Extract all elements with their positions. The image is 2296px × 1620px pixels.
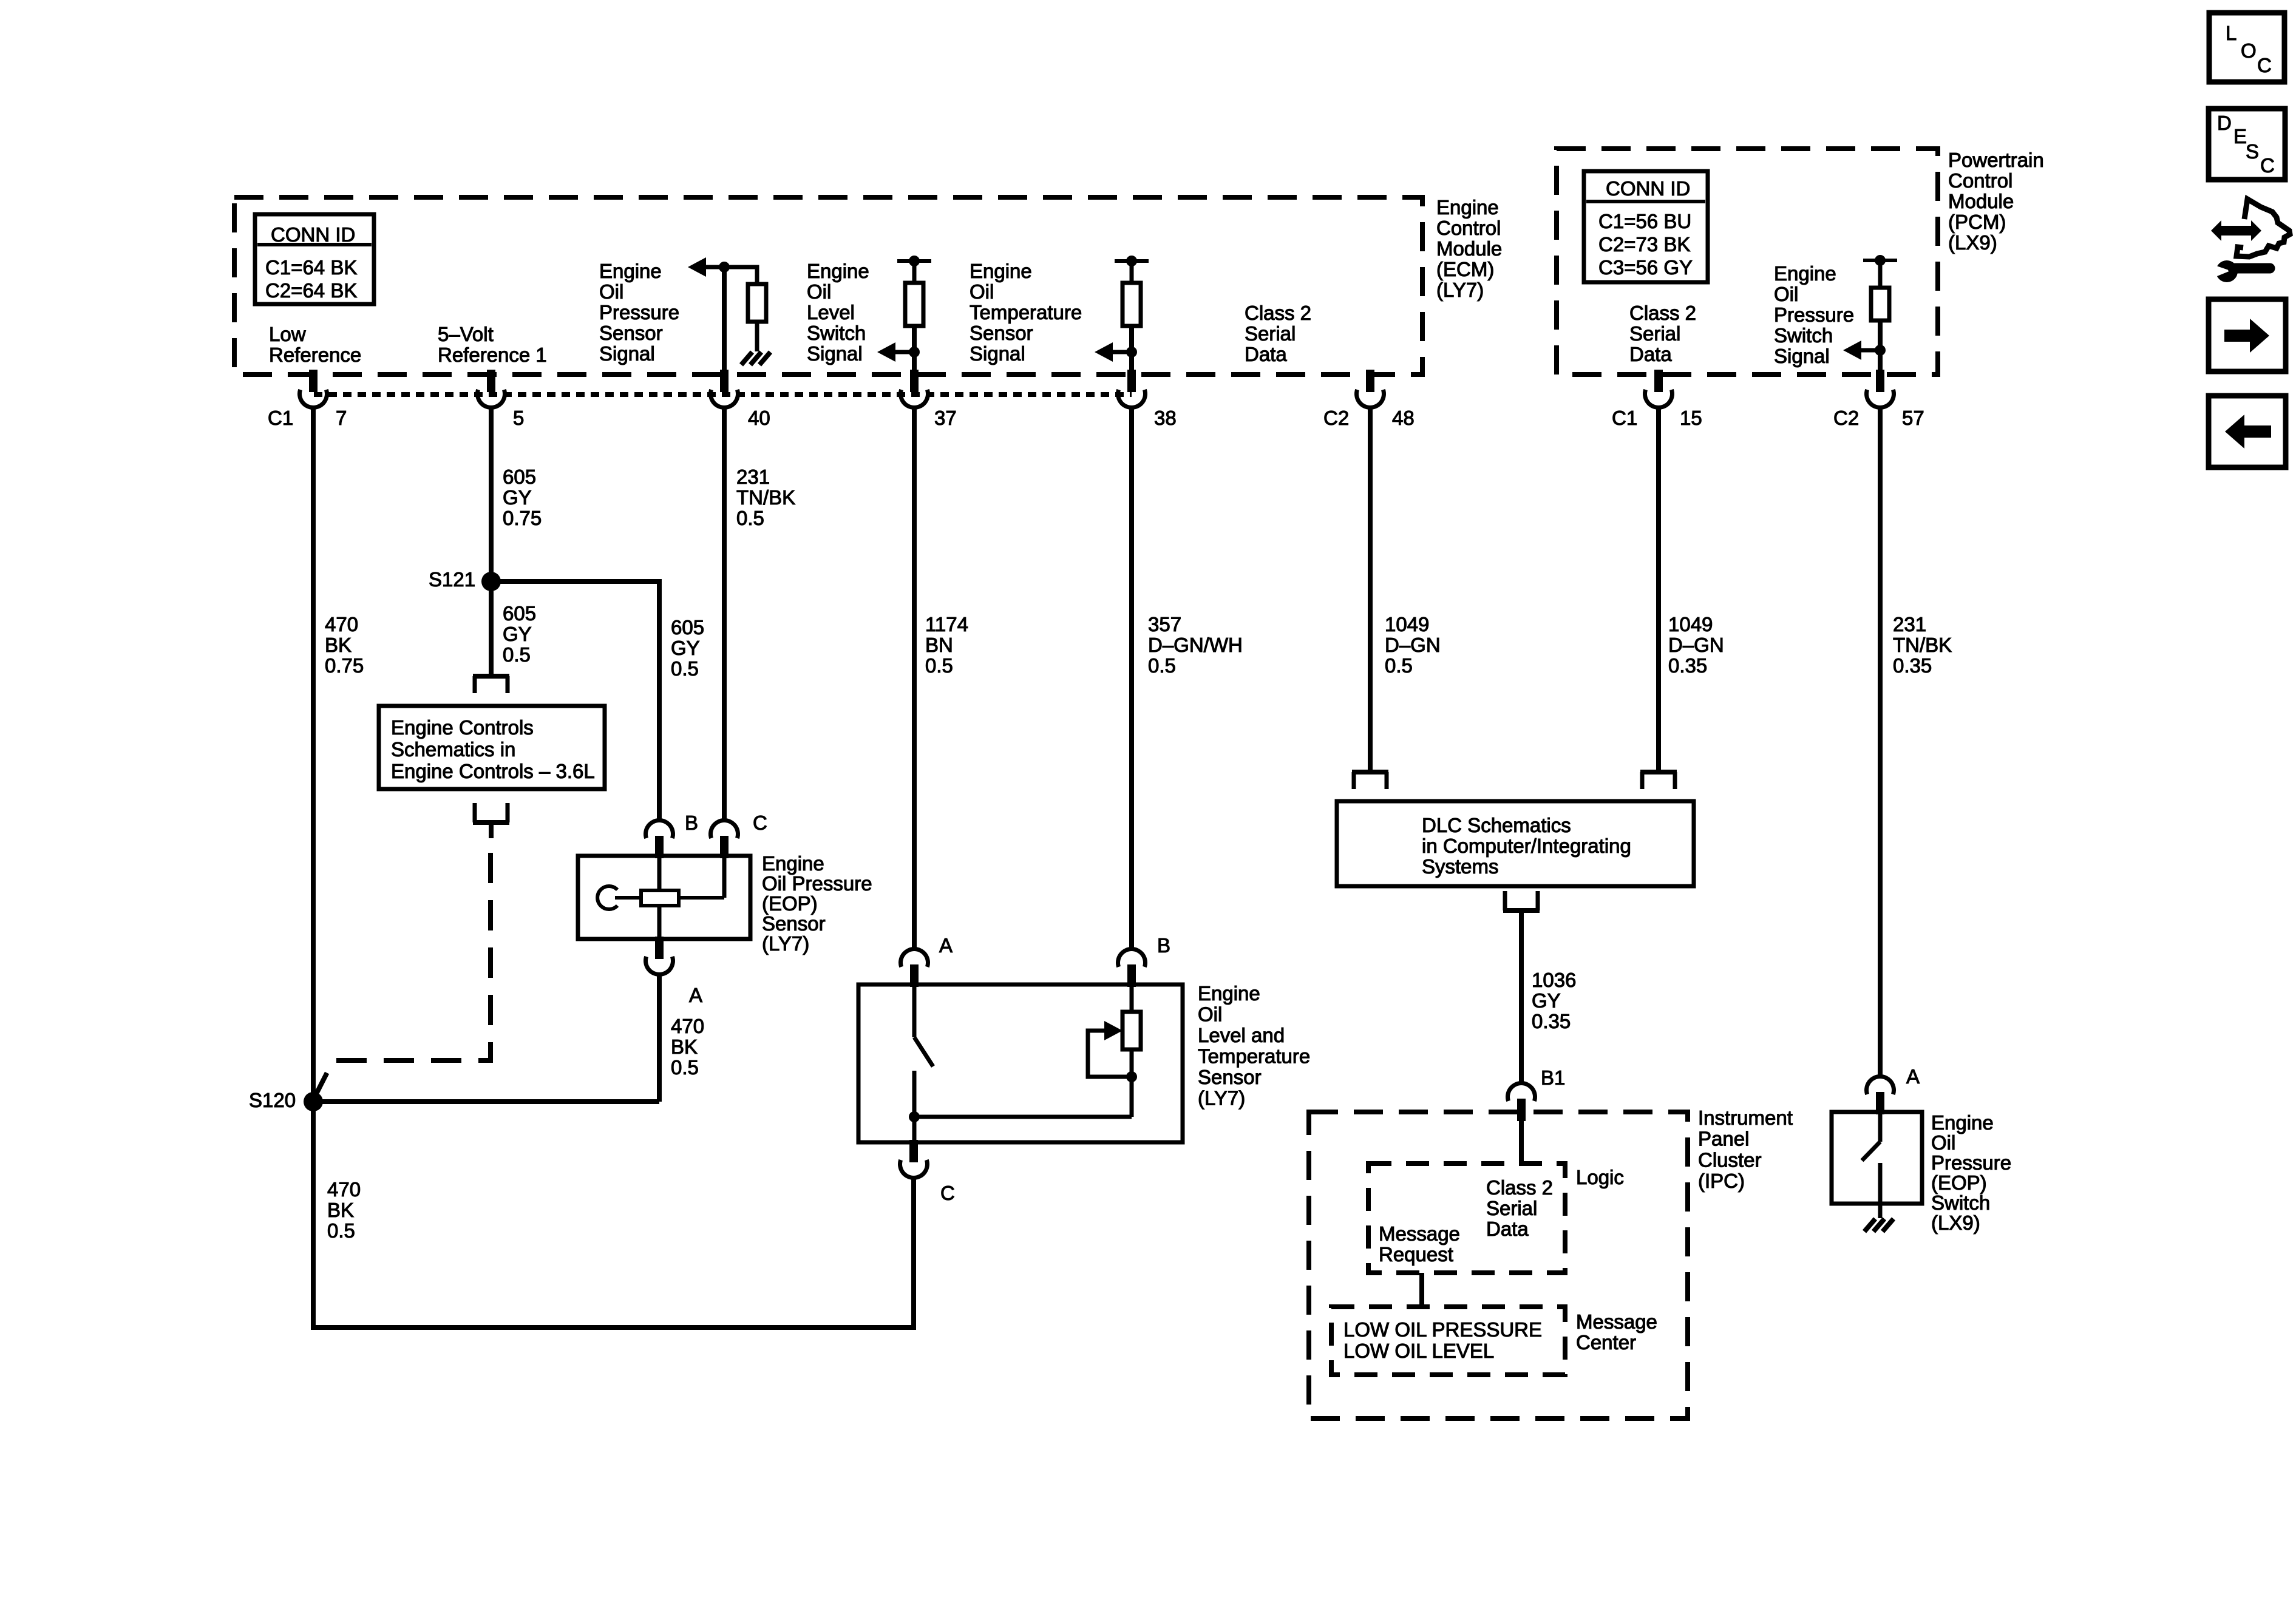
svg-text:Powertrain: Powertrain — [1948, 149, 2044, 171]
svg-text:Oil: Oil — [1931, 1131, 1955, 1154]
svg-text:37: 37 — [934, 407, 957, 429]
svg-text:Level: Level — [807, 301, 855, 324]
svg-text:CONN ID: CONN ID — [1606, 177, 1690, 200]
svg-text:CONN ID: CONN ID — [271, 223, 355, 246]
svg-text:Temperature: Temperature — [1198, 1045, 1310, 1068]
svg-text:(EOP): (EOP) — [762, 892, 818, 915]
svg-text:(IPC): (IPC) — [1698, 1170, 1745, 1192]
svg-text:Data: Data — [1245, 343, 1287, 365]
svg-text:Pressure: Pressure — [599, 301, 679, 324]
svg-text:Control: Control — [1948, 169, 2012, 192]
svg-text:357: 357 — [1148, 613, 1181, 635]
svg-text:Message: Message — [1576, 1310, 1657, 1333]
svg-text:470: 470 — [671, 1015, 704, 1037]
svg-text:D: D — [2217, 112, 2232, 134]
svg-text:1036: 1036 — [1532, 969, 1576, 991]
svg-text:Oil: Oil — [1198, 1003, 1222, 1026]
svg-text:Module: Module — [1948, 190, 2014, 212]
svg-text:BK: BK — [671, 1035, 698, 1058]
svg-text:Oil: Oil — [970, 280, 994, 303]
svg-text:605: 605 — [503, 602, 536, 625]
svg-text:C1=56 BU: C1=56 BU — [1598, 210, 1691, 232]
svg-text:5: 5 — [513, 407, 524, 429]
svg-text:1049: 1049 — [1385, 613, 1429, 635]
svg-text:38: 38 — [1154, 407, 1177, 429]
svg-text:GY: GY — [503, 486, 532, 509]
svg-text:TN/BK: TN/BK — [1893, 634, 1952, 656]
svg-text:DLC Schematics: DLC Schematics — [1422, 814, 1571, 836]
svg-text:Control: Control — [1436, 217, 1501, 239]
svg-text:C1=64 BK: C1=64 BK — [265, 256, 357, 279]
svg-text:S120: S120 — [249, 1089, 296, 1111]
svg-text:BN: BN — [925, 634, 953, 656]
svg-text:48: 48 — [1392, 407, 1415, 429]
svg-text:0.35: 0.35 — [1532, 1010, 1571, 1032]
svg-text:Signal: Signal — [807, 342, 863, 365]
svg-text:B1: B1 — [1541, 1066, 1565, 1089]
svg-text:(LX9): (LX9) — [1948, 231, 1997, 254]
svg-text:Signal: Signal — [599, 342, 655, 365]
svg-text:Sensor: Sensor — [762, 912, 826, 935]
svg-text:(LX9): (LX9) — [1931, 1212, 1980, 1234]
svg-text:C1: C1 — [268, 407, 293, 429]
svg-text:Logic: Logic — [1576, 1166, 1624, 1188]
svg-text:15: 15 — [1680, 407, 1702, 429]
svg-text:1049: 1049 — [1668, 613, 1713, 635]
svg-text:L: L — [2226, 22, 2237, 44]
svg-text:(LY7): (LY7) — [1198, 1087, 1245, 1110]
svg-text:231: 231 — [736, 466, 770, 488]
svg-text:Low: Low — [269, 323, 306, 345]
svg-text:Engine: Engine — [1931, 1111, 1994, 1134]
svg-text:BK: BK — [325, 634, 352, 656]
svg-text:Oil: Oil — [807, 280, 831, 303]
svg-text:GY: GY — [671, 637, 700, 659]
svg-text:C1: C1 — [1612, 407, 1637, 429]
svg-text:TN/BK: TN/BK — [736, 486, 795, 509]
svg-text:A: A — [939, 934, 953, 957]
svg-text:0.5: 0.5 — [503, 643, 531, 666]
svg-text:Message: Message — [1379, 1222, 1460, 1245]
svg-text:LOW OIL LEVEL: LOW OIL LEVEL — [1343, 1340, 1494, 1362]
svg-text:7: 7 — [336, 407, 347, 429]
svg-text:Engine: Engine — [1198, 982, 1260, 1005]
svg-text:Data: Data — [1486, 1218, 1529, 1240]
svg-text:40: 40 — [748, 407, 770, 429]
svg-text:Signal: Signal — [970, 342, 1025, 365]
svg-text:231: 231 — [1893, 613, 1926, 635]
svg-text:470: 470 — [327, 1178, 361, 1201]
svg-text:S: S — [2246, 140, 2259, 163]
svg-text:Systems: Systems — [1422, 855, 1499, 878]
svg-text:Switch: Switch — [807, 322, 866, 344]
svg-text:D–GN/WH: D–GN/WH — [1148, 634, 1243, 656]
svg-text:Switch: Switch — [1774, 324, 1833, 347]
svg-text:Center: Center — [1576, 1331, 1636, 1354]
svg-text:B: B — [1157, 934, 1170, 957]
svg-text:Engine: Engine — [599, 260, 662, 282]
svg-text:S121: S121 — [429, 568, 475, 591]
svg-text:(LY7): (LY7) — [762, 932, 809, 955]
svg-text:C2: C2 — [1833, 407, 1859, 429]
svg-text:Oil: Oil — [1774, 283, 1798, 305]
svg-text:0.5: 0.5 — [671, 1056, 699, 1079]
svg-text:0.5: 0.5 — [1148, 654, 1176, 677]
svg-text:A: A — [1906, 1065, 1920, 1088]
svg-text:Engine Controls: Engine Controls — [391, 716, 534, 739]
svg-text:Switch: Switch — [1931, 1191, 1990, 1214]
svg-text:57: 57 — [1902, 407, 1924, 429]
svg-text:Serial: Serial — [1245, 322, 1296, 345]
svg-text:Level and: Level and — [1198, 1024, 1285, 1046]
svg-text:Instrument: Instrument — [1698, 1107, 1793, 1129]
svg-text:Oil Pressure: Oil Pressure — [762, 872, 872, 895]
svg-text:LOW OIL PRESSURE: LOW OIL PRESSURE — [1343, 1318, 1542, 1341]
svg-text:605: 605 — [503, 466, 536, 488]
svg-text:5–Volt: 5–Volt — [438, 323, 494, 345]
svg-text:Pressure: Pressure — [1774, 303, 1854, 326]
svg-text:Temperature: Temperature — [970, 301, 1082, 324]
svg-text:D–GN: D–GN — [1385, 634, 1441, 656]
svg-text:(EOP): (EOP) — [1931, 1171, 1987, 1194]
svg-text:(ECM): (ECM) — [1436, 258, 1494, 280]
svg-text:D–GN: D–GN — [1668, 634, 1724, 656]
svg-text:C: C — [2257, 54, 2272, 76]
svg-text:Data: Data — [1629, 343, 1672, 365]
svg-text:470: 470 — [325, 613, 358, 635]
svg-text:Serial: Serial — [1486, 1197, 1537, 1219]
svg-text:C: C — [753, 812, 767, 834]
svg-text:Sensor: Sensor — [1198, 1066, 1262, 1088]
svg-text:B: B — [685, 812, 698, 834]
svg-text:GY: GY — [1532, 989, 1561, 1012]
svg-text:Class 2: Class 2 — [1245, 302, 1311, 324]
svg-text:0.5: 0.5 — [1385, 654, 1413, 677]
svg-text:Engine Controls – 3.6L: Engine Controls – 3.6L — [391, 760, 595, 782]
svg-text:0.5: 0.5 — [736, 507, 764, 529]
svg-text:Reference 1: Reference 1 — [438, 344, 547, 366]
svg-text:C: C — [940, 1182, 955, 1204]
svg-text:GY: GY — [503, 623, 532, 645]
svg-text:C2=73 BK: C2=73 BK — [1598, 233, 1690, 256]
svg-text:Module: Module — [1436, 237, 1502, 260]
svg-text:Cluster: Cluster — [1698, 1148, 1762, 1171]
svg-text:Engine: Engine — [1774, 262, 1836, 285]
svg-text:Sensor: Sensor — [970, 322, 1033, 344]
svg-text:Oil: Oil — [599, 280, 623, 303]
svg-text:Signal: Signal — [1774, 345, 1830, 367]
svg-text:Reference: Reference — [269, 344, 361, 366]
svg-text:C: C — [2260, 154, 2275, 177]
svg-text:Engine: Engine — [762, 852, 824, 875]
svg-text:BK: BK — [327, 1199, 354, 1221]
svg-text:Class 2: Class 2 — [1486, 1176, 1553, 1199]
svg-text:Engine: Engine — [807, 260, 869, 282]
svg-text:A: A — [689, 984, 702, 1006]
svg-text:Engine: Engine — [970, 260, 1032, 282]
svg-text:Engine: Engine — [1436, 196, 1499, 219]
svg-text:0.35: 0.35 — [1668, 654, 1707, 677]
svg-text:E: E — [2233, 125, 2247, 147]
svg-text:in Computer/Integrating: in Computer/Integrating — [1422, 835, 1631, 857]
svg-text:Panel: Panel — [1698, 1128, 1749, 1150]
svg-text:Pressure: Pressure — [1931, 1151, 2011, 1174]
svg-text:0.75: 0.75 — [325, 654, 364, 677]
svg-text:O: O — [2241, 39, 2257, 62]
svg-text:0.5: 0.5 — [671, 657, 699, 680]
svg-text:(PCM): (PCM) — [1948, 211, 2006, 233]
svg-text:C3=56 GY: C3=56 GY — [1598, 256, 1693, 279]
svg-text:0.35: 0.35 — [1893, 654, 1932, 677]
svg-text:Sensor: Sensor — [599, 322, 663, 344]
svg-text:Class 2: Class 2 — [1629, 302, 1696, 324]
svg-text:0.5: 0.5 — [327, 1219, 355, 1242]
svg-text:Schematics in: Schematics in — [391, 738, 515, 761]
svg-text:605: 605 — [671, 616, 704, 639]
svg-text:C2: C2 — [1323, 407, 1349, 429]
svg-text:(LY7): (LY7) — [1436, 279, 1484, 301]
svg-text:C2=64 BK: C2=64 BK — [265, 279, 357, 302]
svg-text:0.75: 0.75 — [503, 507, 542, 529]
svg-text:Request: Request — [1379, 1243, 1453, 1266]
svg-text:Serial: Serial — [1629, 322, 1680, 345]
svg-text:1174: 1174 — [925, 613, 968, 635]
svg-text:0.5: 0.5 — [925, 654, 953, 677]
